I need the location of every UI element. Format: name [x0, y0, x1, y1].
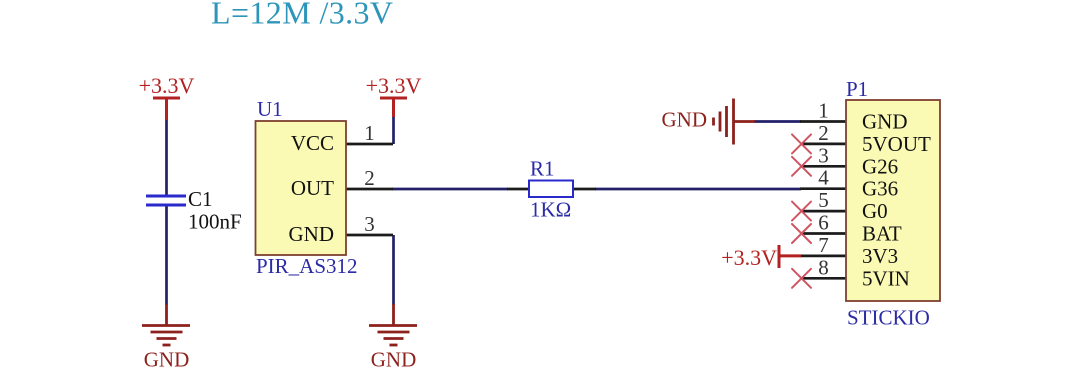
svg-text:+3.3V: +3.3V	[139, 73, 195, 98]
svg-text:1KΩ: 1KΩ	[530, 198, 571, 222]
svg-text:6: 6	[818, 211, 829, 235]
svg-text:PIR_AS312: PIR_AS312	[256, 254, 358, 278]
svg-text:5VIN: 5VIN	[862, 266, 910, 290]
svg-text:GND: GND	[371, 348, 417, 368]
svg-text:+3.3V: +3.3V	[366, 73, 422, 98]
svg-text:5VOUT: 5VOUT	[862, 132, 931, 156]
svg-text:3: 3	[364, 212, 375, 236]
svg-text:G26: G26	[862, 154, 898, 178]
svg-text:P1: P1	[846, 77, 868, 101]
svg-text:2: 2	[364, 166, 375, 190]
svg-text:+3.3V: +3.3V	[721, 245, 777, 270]
svg-text:8: 8	[818, 255, 829, 279]
svg-text:1: 1	[818, 99, 829, 123]
svg-text:STICKIO: STICKIO	[847, 306, 930, 330]
svg-text:L=12M /3.3V: L=12M /3.3V	[211, 0, 393, 31]
svg-text:VCC: VCC	[291, 131, 334, 155]
svg-text:C1: C1	[188, 187, 213, 211]
svg-text:BAT: BAT	[862, 222, 902, 246]
svg-text:G36: G36	[862, 177, 898, 201]
svg-text:GND: GND	[289, 222, 335, 246]
svg-text:U1: U1	[257, 97, 283, 121]
svg-text:R1: R1	[530, 157, 555, 181]
svg-text:3: 3	[818, 143, 829, 167]
svg-text:3V3: 3V3	[862, 244, 898, 268]
svg-text:1: 1	[364, 121, 375, 145]
svg-text:OUT: OUT	[291, 176, 334, 200]
svg-text:GND: GND	[862, 110, 908, 134]
svg-text:4: 4	[818, 166, 829, 190]
svg-text:GND: GND	[662, 108, 708, 132]
svg-text:7: 7	[818, 233, 829, 257]
svg-text:GND: GND	[144, 348, 190, 368]
svg-text:2: 2	[818, 121, 829, 145]
svg-text:G0: G0	[862, 199, 888, 223]
svg-text:100nF: 100nF	[188, 210, 242, 234]
svg-text:5: 5	[818, 188, 829, 212]
